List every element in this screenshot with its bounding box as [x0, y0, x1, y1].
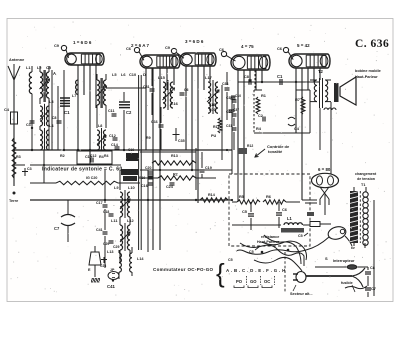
svg-text:3 = 6 D 6: 3 = 6 D 6 — [185, 39, 204, 44]
svg-text:C36: C36 — [151, 120, 158, 124]
svg-text:L7: L7 — [72, 94, 76, 98]
svg-text:C4: C4 — [4, 107, 10, 112]
svg-text:R10: R10 — [209, 108, 216, 112]
svg-text:C6: C6 — [126, 46, 132, 51]
svg-text:C5: C5 — [242, 209, 248, 214]
svg-text:Antenne: Antenne — [9, 58, 24, 62]
svg-text:Interrupteur: Interrupteur — [333, 259, 355, 263]
svg-text:changement: changement — [355, 172, 377, 176]
svg-text:R4: R4 — [104, 154, 109, 158]
svg-text:C6: C6 — [277, 46, 283, 51]
svg-text:L12: L12 — [127, 218, 135, 223]
svg-text:L15: L15 — [158, 75, 166, 80]
svg-text:PU: PU — [211, 134, 217, 138]
svg-text:R2: R2 — [173, 173, 178, 177]
svg-text:R7: R7 — [295, 97, 300, 102]
svg-text:C8: C8 — [52, 116, 57, 120]
svg-text:Indicateur de syntonie = C. 60: Indicateur de syntonie = C. 60 — [42, 167, 122, 173]
svg-text:R11: R11 — [213, 125, 219, 129]
svg-text:Haut-Parleur: Haut-Parleur — [355, 75, 378, 79]
svg-text:C24: C24 — [166, 185, 174, 189]
svg-text:R3: R3 — [16, 155, 21, 159]
svg-text:C18: C18 — [103, 210, 109, 214]
svg-text:R13: R13 — [171, 154, 178, 158]
svg-text:L13: L13 — [107, 250, 114, 254]
svg-text:OC: OC — [264, 279, 270, 284]
svg-text:L11: L11 — [111, 218, 118, 223]
svg-text:R2: R2 — [60, 154, 65, 158]
svg-text:L18: L18 — [209, 103, 215, 107]
svg-text:C5: C5 — [249, 250, 254, 254]
svg-text:C17: C17 — [96, 201, 103, 205]
svg-text:C37: C37 — [233, 108, 239, 112]
svg-text:C3: C3 — [27, 167, 32, 171]
svg-text:C29: C29 — [103, 242, 109, 246]
svg-text:fusible: fusible — [341, 281, 353, 285]
svg-text:bobine mobile: bobine mobile — [355, 69, 381, 73]
svg-text:T2: T2 — [318, 69, 324, 74]
svg-text:C34: C34 — [222, 82, 228, 86]
svg-text:Terre: Terre — [9, 199, 18, 203]
svg-text:L17: L17 — [205, 75, 213, 80]
svg-text:R1: R1 — [261, 93, 267, 98]
svg-text:IG C20: IG C20 — [86, 176, 97, 180]
svg-text:5 = 42: 5 = 42 — [297, 43, 310, 48]
svg-text:C5: C5 — [228, 258, 233, 262]
svg-text:C9: C9 — [54, 43, 60, 48]
svg-text:T1: T1 — [361, 183, 365, 187]
svg-text:L1: L1 — [287, 216, 293, 221]
svg-text:R14: R14 — [208, 193, 216, 197]
svg-text:C9: C9 — [165, 45, 171, 50]
svg-text:PO: PO — [236, 279, 243, 284]
svg-text:C12: C12 — [90, 154, 96, 158]
svg-text:S: S — [325, 256, 328, 261]
svg-text:C1: C1 — [64, 110, 70, 115]
svg-text:R6: R6 — [266, 194, 272, 199]
svg-text:C. 636: C. 636 — [355, 38, 389, 50]
svg-text:R12: R12 — [247, 144, 253, 148]
svg-text:6v: 6v — [351, 246, 355, 250]
svg-text:Commutateur OC-PO-GO: Commutateur OC-PO-GO — [153, 267, 214, 272]
svg-text:de tension: de tension — [357, 177, 375, 181]
svg-text:résistance: résistance — [261, 235, 279, 239]
svg-text:C2: C2 — [258, 114, 263, 118]
svg-text:C2: C2 — [126, 110, 132, 115]
svg-text:A . B . C . D . E . F . G . H: A . B . C . D . E . F . G . H — [226, 268, 286, 273]
svg-text:C16: C16 — [141, 184, 148, 188]
svg-text:C6: C6 — [282, 207, 288, 212]
svg-text:L14: L14 — [137, 257, 144, 261]
svg-text:C11: C11 — [108, 109, 115, 113]
svg-text:C19: C19 — [205, 166, 212, 170]
svg-text:L8: L8 — [98, 124, 102, 128]
svg-text:C20: C20 — [145, 166, 151, 170]
svg-text:tonalité: tonalité — [268, 149, 283, 154]
svg-text:C7: C7 — [54, 226, 60, 231]
svg-text:C10: C10 — [235, 94, 241, 98]
svg-text:C31: C31 — [226, 124, 232, 128]
svg-text:D: D — [143, 72, 146, 77]
svg-text:C41: C41 — [107, 284, 115, 289]
svg-text:L16: L16 — [171, 101, 179, 106]
svg-text:{: { — [216, 258, 225, 288]
svg-text:2 = 6 A 7: 2 = 6 A 7 — [131, 43, 150, 48]
svg-text:C10: C10 — [129, 72, 136, 77]
svg-text:R9: R9 — [146, 136, 151, 140]
svg-text:6 = 80: 6 = 80 — [318, 167, 331, 172]
svg-text:C6: C6 — [219, 47, 225, 52]
svg-text:C41: C41 — [96, 228, 103, 232]
svg-text:1 = 6 D 6: 1 = 6 D 6 — [73, 40, 92, 45]
svg-text:4 = 75: 4 = 75 — [241, 44, 254, 49]
svg-text:C7: C7 — [371, 287, 376, 291]
svg-text:C6: C6 — [184, 88, 189, 92]
svg-text:R5: R5 — [239, 194, 245, 199]
svg-text:L10: L10 — [128, 185, 135, 190]
svg-text:C8: C8 — [244, 75, 249, 79]
svg-text:C35: C35 — [178, 139, 185, 143]
svg-text:Secteur alt...: Secteur alt... — [290, 292, 313, 296]
svg-text:C5: C5 — [298, 234, 303, 238]
svg-text:C1: C1 — [277, 74, 283, 79]
svg-text:GO: GO — [250, 279, 257, 284]
svg-text:C29: C29 — [113, 245, 119, 249]
svg-text:A: A — [53, 71, 56, 76]
